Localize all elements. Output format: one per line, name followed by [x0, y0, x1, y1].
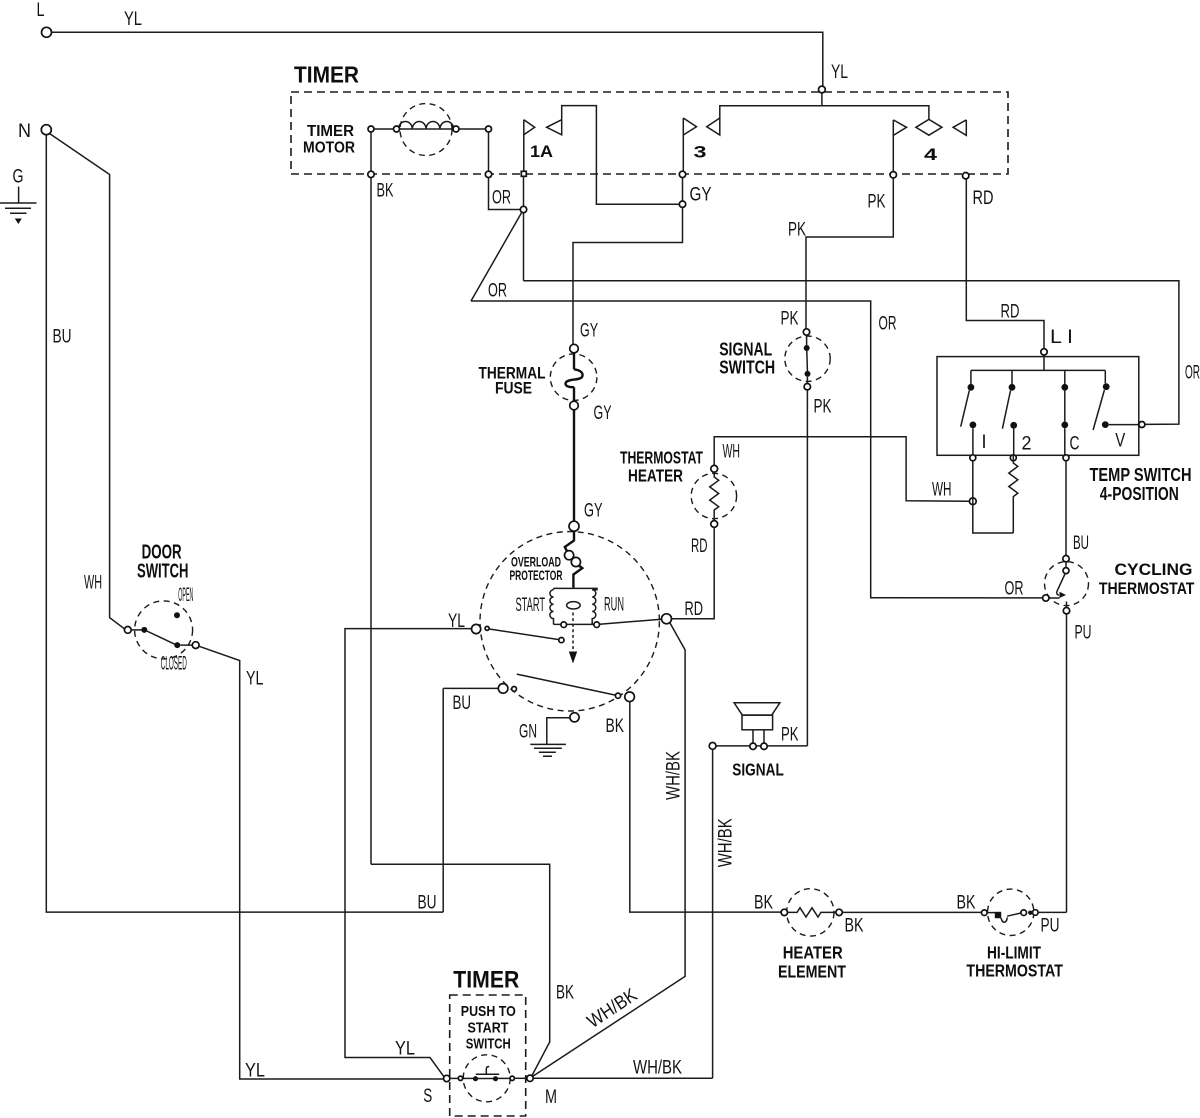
svg-text:4-POSITION: 4-POSITION	[1100, 484, 1179, 504]
svg-text:3: 3	[694, 143, 707, 162]
svg-text:MOTOR: MOTOR	[303, 140, 355, 157]
motor start/run winding block	[516, 588, 625, 627]
svg-text:ELEMENT: ELEMENT	[778, 962, 846, 982]
motor M1 (dashed outline)	[480, 532, 659, 711]
svg-text:BK: BK	[556, 983, 574, 1004]
hi-limit thermostat HL1	[966, 889, 1066, 980]
svg-text:FUSE: FUSE	[495, 379, 532, 398]
svg-text:HI-LIMIT: HI-LIMIT	[987, 943, 1041, 963]
svg-text:OPEN: OPEN	[178, 585, 193, 606]
wire BK: timer BK rail to M node	[371, 864, 574, 1076]
svg-text:HEATER: HEATER	[628, 466, 683, 486]
wire RD: switch 4 right contact to temp switch LI	[966, 179, 1044, 349]
wire RD: run winding to junction	[600, 614, 672, 625]
ground GN (motor case ground)	[519, 713, 579, 757]
svg-text:PROTECTOR: PROTECTOR	[510, 567, 563, 583]
svg-text:SWITCH: SWITCH	[719, 358, 775, 378]
resistor R1 (temp switch dropping resistor)	[1009, 455, 1018, 533]
svg-text:1A: 1A	[530, 142, 553, 161]
temp switch 4-position box	[937, 357, 1192, 504]
wire: 1A right contact staircase to GY node	[562, 106, 680, 205]
svg-text:TIMER: TIMER	[294, 62, 359, 88]
svg-text:PUSH TO: PUSH TO	[461, 1003, 516, 1020]
wire BU: temp switch C to cycling thermostat	[1066, 461, 1089, 556]
wire OR: timer motor right terminal down to junction	[485, 132, 521, 210]
svg-text:YL: YL	[831, 62, 848, 83]
svg-text:GN: GN	[519, 722, 537, 743]
wire BK: motor lower switch to heater element	[606, 702, 782, 914]
svg-text:GY: GY	[690, 185, 712, 206]
svg-text:PU: PU	[1041, 916, 1060, 937]
timer switch contact 1A	[521, 120, 561, 177]
svg-text:HEATER: HEATER	[783, 943, 843, 963]
node LI (temp switch line input)	[1041, 327, 1073, 355]
svg-text:RD: RD	[1001, 302, 1020, 323]
svg-text:RD: RD	[691, 536, 708, 557]
svg-text:4: 4	[924, 145, 938, 164]
wire BK: timer motor left terminal down through box	[368, 132, 394, 864]
svg-text:OR: OR	[1185, 363, 1200, 384]
thermostat heater TH1	[620, 448, 737, 528]
wire BU: into motor lower centrifugal switch	[443, 684, 516, 912]
wire WH/BK: speaker left terminal down to M node	[533, 749, 737, 1078]
wire WH/BK: run junction down to M node	[532, 622, 686, 1077]
wire: temp switch internal bus	[971, 355, 1105, 370]
push-to-start switch PS1	[423, 1055, 557, 1108]
svg-text:WH/BK: WH/BK	[716, 818, 737, 867]
svg-text:TIMER: TIMER	[307, 123, 354, 140]
timer box (dashed enclosure)	[291, 62, 1008, 175]
svg-text:BK: BK	[845, 916, 864, 937]
svg-text:N: N	[18, 121, 31, 142]
svg-text:L: L	[37, 0, 45, 21]
motor rotor arrow	[569, 613, 577, 664]
wire RD: thermostat heater to motor run junction	[671, 527, 714, 620]
motor centrifugal start switch (upper blade)	[472, 624, 565, 642]
svg-text:OR: OR	[1005, 579, 1024, 600]
timer switch contact 3	[679, 118, 720, 178]
svg-text:PK: PK	[781, 725, 799, 746]
svg-text:BK: BK	[957, 893, 976, 914]
svg-text:S: S	[423, 1086, 432, 1107]
signal switch SS1	[719, 329, 832, 418]
temp switch contact V	[1093, 370, 1145, 451]
svg-text:TIMER: TIMER	[453, 967, 519, 994]
temp switch contact C (closed)	[1061, 370, 1079, 460]
svg-text:SIGNAL: SIGNAL	[719, 340, 772, 360]
thermal fuse TF1	[479, 344, 612, 424]
svg-text:OR: OR	[879, 314, 897, 335]
svg-text:RD: RD	[685, 599, 704, 620]
svg-text:START: START	[468, 1020, 509, 1037]
svg-text:PK: PK	[788, 220, 806, 241]
svg-text:WH: WH	[932, 480, 952, 501]
svg-text:GY: GY	[584, 501, 603, 522]
svg-text:WH/BK: WH/BK	[664, 751, 685, 800]
wire PU: cycling thermostat to hi-limit line	[1067, 614, 1092, 913]
svg-text:M: M	[545, 1087, 557, 1108]
motor GY terminal	[569, 521, 579, 531]
wire YL: door switch down to push-to-start switch	[199, 646, 444, 1081]
svg-text:THERMOSTAT: THERMOSTAT	[966, 961, 1063, 981]
wire OR: diagonal from junction to OR bus	[471, 212, 522, 301]
svg-text:BU: BU	[1073, 533, 1089, 554]
svg-text:BU: BU	[53, 327, 72, 348]
svg-text:OR: OR	[492, 188, 511, 209]
svg-text:RD: RD	[973, 188, 994, 209]
wire WH: thermostat heater to temp switch contact 1	[714, 437, 976, 505]
wire WH: N diagonal to door switch	[50, 134, 125, 630]
svg-text:PK: PK	[868, 192, 886, 213]
temp switch contact 1	[961, 370, 987, 460]
svg-text:THERMOSTAT: THERMOSTAT	[620, 448, 703, 468]
svg-text:THERMOSTAT: THERMOSTAT	[1099, 580, 1195, 598]
svg-text:START: START	[516, 595, 546, 616]
svg-text:YL: YL	[246, 669, 264, 690]
door switch DS1	[124, 542, 199, 675]
svg-text:GY: GY	[580, 321, 598, 342]
svg-text:C: C	[1070, 434, 1080, 455]
svg-text:WH/BK: WH/BK	[633, 1058, 682, 1079]
wire: timer top bus from YL drop to switches 3 and 4	[720, 86, 929, 119]
heater element HE1	[778, 889, 982, 982]
svg-text:PU: PU	[1075, 623, 1092, 644]
wire YL: into motor start switch	[345, 611, 472, 1077]
svg-text:L I: L I	[1050, 327, 1073, 348]
timer motor TM (coil)	[303, 104, 492, 157]
svg-text:BK: BK	[754, 893, 773, 914]
svg-text:BK: BK	[606, 716, 625, 737]
svg-text:YL: YL	[448, 611, 465, 632]
svg-text:SIGNAL: SIGNAL	[732, 760, 784, 780]
svg-text:G: G	[13, 167, 24, 188]
svg-text:WH: WH	[723, 442, 741, 463]
svg-text:CYCLING: CYCLING	[1115, 561, 1193, 579]
svg-text:PK: PK	[781, 309, 799, 330]
signal buzzer SP1 (speaker)	[709, 703, 807, 780]
svg-text:TEMP SWITCH: TEMP SWITCH	[1090, 465, 1192, 485]
cycling thermostat CT1	[1043, 556, 1195, 614]
wire BU: N down left rail and across bottom	[46, 135, 443, 914]
motor centrifugal switch lower blade	[517, 674, 635, 702]
wire: temp switch 1 bottom through WH node to resistor	[973, 461, 1014, 533]
svg-text:BU: BU	[418, 893, 437, 914]
wire PK: switch 4 left contact to signal switch	[781, 178, 894, 330]
svg-text:SWITCH: SWITCH	[137, 561, 189, 583]
svg-text:I: I	[982, 432, 987, 453]
node N (neutral terminal)	[18, 121, 51, 142]
wire OR: lower bus to cycling thermostat	[471, 301, 1043, 600]
svg-text:RUN: RUN	[604, 595, 624, 616]
wire OR: main bus across to temp switch V	[524, 281, 1200, 425]
node L (line terminal)	[37, 0, 52, 37]
svg-text:YL: YL	[395, 1039, 415, 1060]
timer switch contact 4 (double throw with diamond wiper)	[890, 119, 969, 178]
svg-text:SWITCH: SWITCH	[466, 1036, 511, 1053]
svg-text:YL: YL	[245, 1061, 265, 1082]
ground G (earth ground symbol)	[0, 167, 37, 225]
svg-text:PK: PK	[814, 397, 832, 418]
svg-text:WH: WH	[84, 573, 102, 594]
svg-text:BK: BK	[377, 181, 394, 202]
node OR junction under 1A	[520, 176, 526, 280]
wire GY: switch 3 to thermal fuse	[573, 178, 712, 345]
svg-text:OR: OR	[488, 281, 507, 302]
svg-text:YL: YL	[124, 9, 142, 30]
svg-text:CLOSED: CLOSED	[161, 654, 187, 675]
temp switch contact 2	[1002, 370, 1031, 460]
svg-text:GY: GY	[594, 403, 612, 424]
timer box (push to start, dashed)	[450, 967, 526, 1117]
wire GY (heavy): thermal fuse to motor	[574, 410, 603, 522]
svg-text:BU: BU	[453, 693, 472, 714]
wire YL: L terminal to timer box top	[52, 9, 848, 86]
svg-text:V: V	[1115, 431, 1125, 452]
svg-text:2: 2	[1022, 434, 1032, 455]
overload protector OP1	[510, 531, 583, 587]
wire PK: signal switch down to signal buzzer	[781, 390, 807, 746]
